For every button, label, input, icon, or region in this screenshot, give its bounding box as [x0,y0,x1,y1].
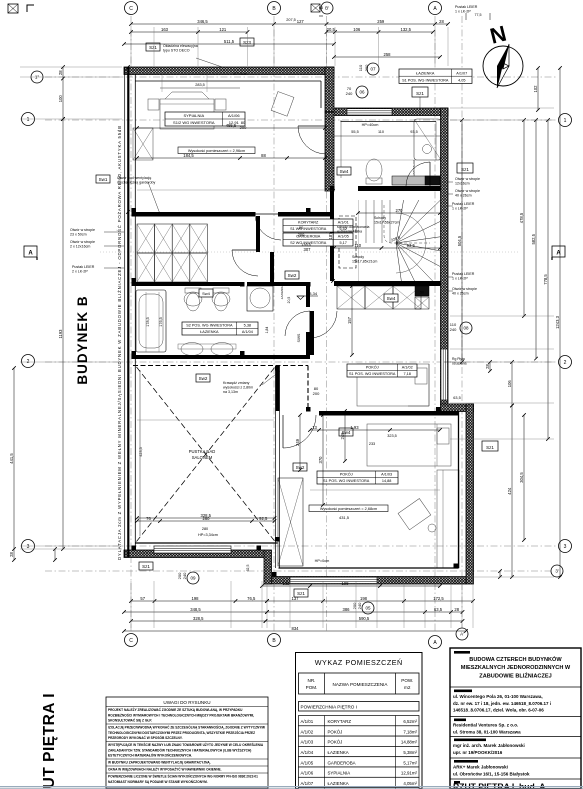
svg-text:6,52m²: 6,52m² [403,719,417,724]
svg-text:POKÓJ: POKÓJ [328,729,343,734]
svg-text:w drewnie klatka: w drewnie klatka [337,230,362,234]
svg-text:139,5: 139,5 [301,243,311,247]
svg-text:Pustak LEIER: Pustak LEIER [452,272,475,276]
svg-text:200: 200 [240,125,247,130]
svg-text:176,5: 176,5 [159,317,163,327]
svg-text:346,5: 346,5 [197,19,208,24]
svg-text:62,5: 62,5 [246,565,250,572]
svg-text:TECHNOLOGICZNYMI DOSTARCZONYMI: TECHNOLOGICZNYMI DOSTARCZONYMI PRZEZ PRO… [108,730,255,735]
svg-text:A/1/06: A/1/06 [301,771,314,776]
svg-text:UWAGI DO RYSUNKU: UWAGI DO RYSUNKU [163,700,210,705]
svg-text:ul. Stroma 38, 01-100 Warszawa: ul. Stroma 38, 01-100 Warszawa [453,730,521,735]
svg-text:BUDYNEK B: BUDYNEK B [75,295,90,384]
svg-text:Otwór pod wentylację: Otwór pod wentylację [117,176,151,180]
svg-text:Wysokość pomieszczeń = 2,68cm: Wysokość pomieszczeń = 2,68cm [320,507,377,511]
svg-text:93,5: 93,5 [407,243,416,248]
svg-text:3: 3 [564,544,567,550]
svg-text:WYKAZ POMIESZCZEŃ: WYKAZ POMIESZCZEŃ [315,658,403,667]
svg-text:28: 28 [9,552,14,557]
svg-text:304,5: 304,5 [519,472,524,483]
svg-text:08: 08 [463,326,469,331]
svg-text:ROZBIEŻNOŚCI WYMIAROWYCH I TEC: ROZBIEŻNOŚCI WYMIAROWYCH I TECHNOLOGICZN… [108,712,254,717]
svg-text:SYPIALNIA: SYPIALNIA [328,771,351,776]
svg-text:106: 106 [353,27,361,32]
svg-text:1,93: 1,93 [350,425,359,430]
svg-text:Krawędź zmiany: Krawędź zmiany [223,381,250,385]
svg-text:63,5: 63,5 [434,607,443,612]
svg-text:POWIERZCHNIA PIĘTRO I: POWIERZCHNIA PIĘTRO I [301,705,357,710]
svg-text:ARK+ Marek Jabłonowski: ARK+ Marek Jabłonowski [453,765,508,770]
svg-text:SALONEM: SALONEM [192,455,213,460]
svg-text:423,5: 423,5 [139,447,143,457]
svg-text:Schody: Schody [374,216,386,220]
svg-text:Otwór w stropie: Otwór w stropie [70,228,95,232]
svg-text:06: 06 [359,90,365,95]
svg-text:1 x LK-2P: 1 x LK-2P [452,207,468,211]
svg-text:Sz1: Sz1 [486,445,494,450]
svg-text:240: 240 [357,602,362,609]
svg-text:UMYWALKA: UMYWALKA [412,160,416,176]
svg-text:12x16cm: 12x16cm [455,182,470,186]
svg-text:66: 66 [319,6,323,10]
svg-text:A': A' [460,632,464,637]
svg-text:198: 198 [192,596,200,601]
svg-text:7,18: 7,18 [404,372,411,376]
svg-text:200: 200 [313,391,320,396]
svg-text:09: 09 [190,576,196,581]
svg-text:132,5: 132,5 [401,27,412,32]
svg-text:76,5: 76,5 [247,596,256,601]
svg-text:S2 POS. WG INWESTORA: S2 POS. WG INWESTORA [186,324,233,328]
svg-text:B': B' [325,6,329,11]
svg-text:778,5: 778,5 [543,274,548,285]
svg-text:A/1/06: A/1/06 [228,113,240,118]
svg-text:Wysokość pomieszczeń = 2,96cm: Wysokość pomieszczeń = 2,96cm [188,149,245,153]
svg-text:63,5: 63,5 [453,396,460,400]
svg-text:05: 05 [365,606,371,611]
svg-text:258: 258 [384,52,392,57]
svg-text:Pustak LEIER: Pustak LEIER [455,5,478,9]
svg-text:1,84: 1,84 [265,327,269,334]
svg-text:5,38m²: 5,38m² [403,750,417,755]
svg-text:ZAKŁADANYCH TZW. STANDARDÓW TE: ZAKŁADANYCH TZW. STANDARDÓW TECHNICZNYCH… [108,747,251,752]
svg-text:typu STO DECO: typu STO DECO [163,49,190,53]
svg-text:280: 280 [202,527,208,531]
svg-text:1: 1 [27,117,30,123]
svg-text:A/1/01: A/1/01 [301,719,314,724]
svg-text:A: A [556,251,561,257]
svg-text:ŁAZIENKA: ŁAZIENKA [328,750,349,755]
svg-text:Schody: Schody [352,255,364,259]
svg-text:Sz1: Sz1 [416,91,424,96]
svg-text:OKNA W WIĘZOWNIACH NALEŻY WYPO: OKNA W WIĘZOWNIACH NALEŻY WYPOSAŻYĆ W NA… [108,767,222,772]
svg-text:1193: 1193 [58,329,63,339]
svg-text:osuszana: osuszana [452,362,467,366]
svg-text:A/1/02: A/1/02 [301,729,314,734]
svg-text:5,17m²: 5,17m² [403,760,417,765]
svg-text:PRZEGRODY WYKONAĆ W SPOSÓB SZC: PRZEGRODY WYKONAĆ W SPOSÓB SZCZELNY. [108,735,183,740]
svg-text:Residential Ventures Sp. z o.o: Residential Ventures Sp. z o.o. [453,723,518,728]
svg-text:A/1/03: A/1/03 [381,473,392,477]
svg-text:12,91m²: 12,91m² [401,771,418,776]
svg-text:Otwór w stropie: Otwór w stropie [452,287,477,291]
svg-text:na 3,13m: na 3,13m [223,390,238,394]
svg-text:mgr inż. arch. Marek Jabłonows: mgr inż. arch. Marek Jabłonowski [453,743,525,748]
svg-text:ŁAZIENKA: ŁAZIENKA [328,781,349,786]
svg-text:77,5: 77,5 [475,13,482,17]
svg-text:1: 1 [564,118,567,124]
svg-text:259: 259 [377,19,385,24]
svg-text:23 x 50cm: 23 x 50cm [70,233,87,237]
svg-text:C: C [129,638,133,644]
svg-text:1243,3: 1243,3 [555,315,560,328]
svg-text:Sz1: Sz1 [142,564,150,569]
svg-text:28: 28 [439,19,444,24]
svg-text:schody do wykonania: schody do wykonania [337,225,370,229]
svg-text:511,5: 511,5 [224,39,235,44]
svg-text:ŁAZIENKA: ŁAZIENKA [200,330,219,334]
svg-text:13: 13 [312,425,317,430]
svg-text:15x17,85x21cm: 15x17,85x21cm [352,260,377,264]
svg-text:4,05m²: 4,05m² [403,781,417,786]
svg-text:2 x LK-2P: 2 x LK-2P [72,270,88,274]
svg-text:RZUT PIĘTRA I: RZUT PIĘTRA I [41,693,58,789]
svg-text:POWIERZCHNIE LICZONE W ŚWIETLE: POWIERZCHNIE LICZONE W ŚWIETLE ŚCIAN WYK… [108,774,258,779]
svg-text:Otwór w stropie: Otwór w stropie [70,240,95,244]
svg-text:ZABUDOWIE BLIŹNIACZEJ: ZABUDOWIE BLIŹNIACZEJ [479,671,551,679]
svg-text:40 x 26cm: 40 x 26cm [455,194,472,198]
svg-text:328,5: 328,5 [201,513,212,518]
svg-text:dz. nr ew. 17 i 18, jedn. ew.: dz. nr ew. 17 i 18, jedn. ew. 146518_8.0… [453,701,551,706]
svg-text:146518_8.0706.17, dziel. Wola,: 146518_8.0706.17, dziel. Wola, obr. 6-07… [453,708,544,713]
svg-text:28: 28 [58,70,63,75]
svg-text:Pustak LEIER: Pustak LEIER [452,202,475,206]
svg-text:20,5: 20,5 [287,297,291,304]
svg-text:GARDEROBA: GARDEROBA [328,760,356,765]
svg-text:370: 370 [318,456,323,464]
svg-text:2: 2 [564,360,567,366]
svg-text:834: 834 [292,626,300,631]
svg-text:Rg Płyta: Rg Płyta [452,357,465,361]
svg-text:15x17,56x27cm: 15x17,56x27cm [374,221,399,225]
svg-text:80: 80 [299,225,304,230]
svg-text:157: 157 [347,316,352,324]
svg-text:Sw2: Sw2 [288,273,297,278]
svg-text:328,5: 328,5 [193,616,204,621]
svg-text:57: 57 [140,596,145,601]
svg-text:431,5: 431,5 [339,515,350,520]
svg-text:110: 110 [378,130,384,134]
svg-text:184,5: 184,5 [183,153,194,158]
svg-text:S1 WG INWESTORA: S1 WG INWESTORA [290,227,327,231]
svg-text:137: 137 [292,596,300,601]
svg-text:198: 198 [342,581,350,586]
svg-text:504,5: 504,5 [457,235,462,246]
svg-text:50: 50 [420,291,424,295]
svg-text:A/1/04: A/1/04 [301,750,314,755]
svg-text:S1 POS. WG INWESTORA: S1 POS. WG INWESTORA [323,479,370,483]
svg-text:Sw2: Sw2 [199,376,208,381]
svg-text:40 x 26cm: 40 x 26cm [452,292,469,296]
svg-text:A/1/07: A/1/07 [301,781,314,786]
svg-text:121: 121 [219,27,227,32]
svg-text:Sw4: Sw4 [340,169,349,174]
svg-text:283,5: 283,5 [195,83,205,87]
svg-text:HP=0cm: HP=0cm [233,72,248,76]
svg-text:20,5: 20,5 [327,27,336,32]
svg-text:KORYTARZ: KORYTARZ [328,719,352,724]
svg-text:307: 307 [304,247,312,252]
svg-text:m2: m2 [404,685,411,690]
svg-text:132: 132 [283,581,291,586]
svg-text:233: 233 [369,442,375,446]
svg-text:240: 240 [182,572,187,579]
svg-text:Sw4: Sw4 [387,296,396,301]
svg-text:POKÓJ: POKÓJ [340,472,353,477]
svg-text:Sw4: Sw4 [202,291,211,296]
svg-text:S1 POS. WG INWESTORA: S1 POS. WG INWESTORA [402,79,449,83]
svg-text:127: 127 [297,19,305,24]
svg-text:55,5: 55,5 [351,130,358,134]
svg-text:88: 88 [261,153,266,158]
svg-text:S1 POS. WG INWESTORA: S1 POS. WG INWESTORA [349,372,396,376]
svg-text:Sz1: Sz1 [149,45,157,50]
svg-text:SYPIALNIA: SYPIALNIA [183,113,204,118]
svg-text:SIWS: SIWS [297,333,301,342]
svg-text:ul. Obrońców 16/1, 15-156 Biał: ul. Obrońców 16/1, 15-156 Białystok [453,772,530,777]
svg-text:386: 386 [343,607,351,612]
svg-text:455,5: 455,5 [226,123,237,128]
svg-text:POM.: POM. [306,685,318,690]
svg-text:14,88: 14,88 [382,479,392,483]
svg-text:Sw1: Sw1 [99,177,108,182]
svg-text:1 x LK-2P: 1 x LK-2P [455,10,471,14]
svg-text:A/1/04: A/1/04 [242,330,253,334]
svg-text:NR.: NR. [308,678,316,683]
svg-text:5,38: 5,38 [244,324,251,328]
svg-text:S1/2 WG INWESTORA: S1/2 WG INWESTORA [173,120,215,125]
svg-text:14,88m²: 14,88m² [401,740,418,745]
svg-text:187: 187 [328,232,333,240]
svg-text:249: 249 [295,438,300,446]
svg-text:+3,34: +3,34 [307,291,318,296]
svg-text:249: 249 [340,432,345,440]
svg-text:DYLATACJA 2cm Z WYPEŁNIENIEM Z: DYLATACJA 2cm Z WYPEŁNIENIEM Z WEŁNY MIN… [117,125,122,560]
svg-text:A/1/07: A/1/07 [456,71,467,75]
svg-text:2: 2 [27,359,30,365]
svg-text:IZOLACJĘ PRZECIWWODNĄ WYKONAĆ: IZOLACJĘ PRZECIWWODNĄ WYKONAĆ ZE SZCZEGÓ… [108,725,265,730]
svg-text:200: 200 [298,232,305,237]
svg-text:240: 240 [450,327,457,332]
svg-text:1 x LK-2P: 1 x LK-2P [452,277,468,281]
svg-text:590,5: 590,5 [359,616,370,621]
svg-text:A/1/05: A/1/05 [338,235,349,239]
svg-text:323,5: 323,5 [387,434,397,438]
svg-text:HP=3,34cm: HP=3,34cm [198,533,218,537]
svg-text:POW.: POW. [401,678,413,683]
svg-text:172,5: 172,5 [433,596,444,601]
svg-text:7,18m²: 7,18m² [403,729,417,734]
svg-text:NATOMIAST NORMARY SĄ PODANE W: NATOMIAST NORMARY SĄ PODANE W STANIE WYK… [108,779,208,784]
svg-text:POKÓJ: POKÓJ [328,740,343,745]
svg-text:HP=0cm: HP=0cm [315,559,330,563]
svg-text:A/1/03: A/1/03 [301,740,314,745]
svg-text:478,5: 478,5 [519,212,524,223]
svg-text:ŁAZIENKA: ŁAZIENKA [280,285,284,300]
svg-text:582,5: 582,5 [531,233,536,244]
svg-text:424: 424 [507,487,512,495]
svg-text:A/1/05: A/1/05 [301,760,314,765]
svg-text:SKONSULTOWAĆ SIĘ Z GŁP.: SKONSULTOWAĆ SIĘ Z GŁP. [108,718,152,723]
svg-text:W BUDYNKU ZAPROJEKTOWANO WENTY: W BUDYNKU ZAPROJEKTOWANO WENTYLACJĘ GRAW… [108,761,211,765]
svg-text:163: 163 [161,27,169,32]
svg-text:Otwór w stropie: Otwór w stropie [455,177,480,181]
svg-text:PROJEKT NALEŻY ZREALIZOWAĆ ZGO: PROJEKT NALEŻY ZREALIZOWAĆ ZGODNIE ZE SZ… [108,707,243,712]
svg-text:106: 106 [507,380,512,388]
svg-text:mechaniczną garderoby: mechaniczną garderoby [117,181,156,185]
svg-text:NAZWA POMIESZCZENIA: NAZWA POMIESZCZENIA [333,682,389,687]
svg-text:2 x 12x16cm: 2 x 12x16cm [70,245,90,249]
svg-text:5,17: 5,17 [340,241,347,245]
svg-text:MIESZKALNYCH JEDNORODZINNYCH W: MIESZKALNYCH JEDNORODZINNYCH W [461,665,571,671]
svg-text:100: 100 [58,95,63,103]
svg-text:76: 76 [146,516,151,521]
svg-text:207,5: 207,5 [286,18,296,22]
svg-text:92,5: 92,5 [259,516,268,521]
svg-text:270: 270 [396,208,404,213]
svg-text:ŁAZIENKA: ŁAZIENKA [416,71,435,75]
svg-text:110: 110 [354,243,361,248]
svg-text:28: 28 [454,607,459,612]
svg-text:Otwór w stropie: Otwór w stropie [455,189,480,193]
svg-text:178,5: 178,5 [146,317,150,327]
svg-text:POKÓJ: POKÓJ [366,365,379,370]
svg-text:WYSTĘPUJĄCE W TEKŚCIE NAZWY ŁU: WYSTĘPUJĄCE W TEKŚCIE NAZWY ŁUB ZNAKI TO… [108,742,264,747]
svg-text:102: 102 [533,85,538,93]
svg-text:3': 3' [555,569,559,574]
svg-text:200: 200 [364,64,369,71]
svg-text:240: 240 [346,91,353,96]
svg-text:Pustak LEIER: Pustak LEIER [72,265,95,269]
svg-text:A: A [28,251,33,257]
svg-text:110: 110 [358,64,363,71]
svg-text:ul. Wincentego Pola 26, 01-100: ul. Wincentego Pola 26, 01-100 Warszawa, [453,694,543,699]
svg-text:07: 07 [370,67,376,72]
svg-text:28: 28 [485,364,490,369]
svg-text:93,5: 93,5 [410,130,417,134]
svg-text:Sz1: Sz1 [461,167,469,172]
svg-text:ESTETYCZNYCH MATERIAŁÓW WYKOŃC: ESTETYCZNYCH MATERIAŁÓW WYKOŃCZENIOWYCH. [108,753,192,758]
svg-text:Okładzina elewacyjna: Okładzina elewacyjna [163,44,198,48]
svg-text:198: 198 [360,596,368,601]
svg-text:HP=40cm: HP=40cm [362,123,379,127]
svg-text:348,5: 348,5 [190,607,201,612]
svg-text:BUDOWA CZTERECH BUDYNKÓW: BUDOWA CZTERECH BUDYNKÓW [469,655,562,663]
svg-text:upr. nr 19/POOKK/2016: upr. nr 19/POOKK/2016 [453,750,503,755]
svg-text:wysokości z 2,80m: wysokości z 2,80m [223,386,253,390]
svg-text:441,5: 441,5 [9,453,14,464]
svg-text:C: C [129,6,133,12]
svg-text:4,05: 4,05 [458,79,465,83]
svg-text:PUSTKA NAD: PUSTKA NAD [189,449,216,454]
svg-text:A/1/02: A/1/02 [402,366,413,370]
